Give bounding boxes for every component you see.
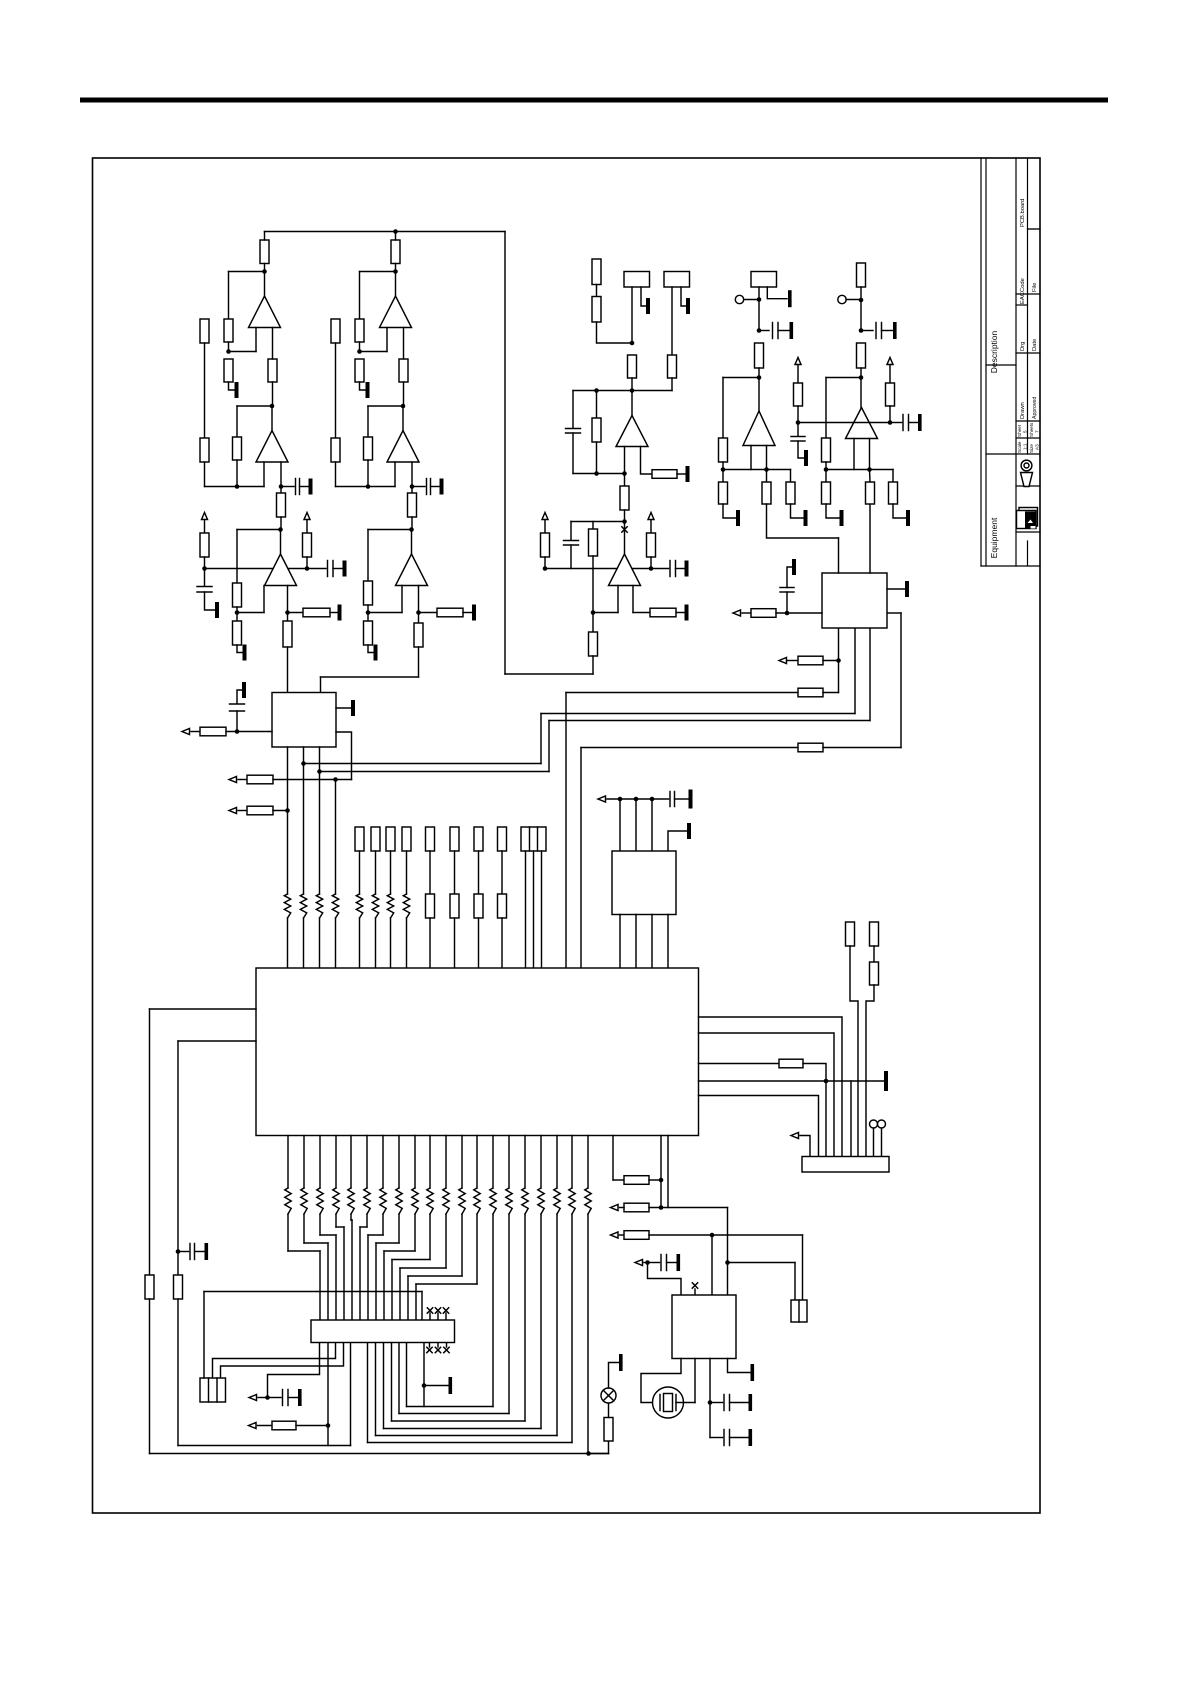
wire ch1 <box>280 487 282 494</box>
wire osc pin a <box>612 1136 614 1181</box>
capacitor mid stageB right <box>670 561 676 577</box>
wire ch4 <box>889 406 891 423</box>
ferrite bead col 399 <box>396 1188 402 1214</box>
wire <box>742 612 751 614</box>
wire into U-left <box>226 731 272 733</box>
wire ch1 to ground <box>205 592 215 610</box>
wire ch4 to cap <box>797 423 799 437</box>
resistor rail C <box>798 688 823 697</box>
capacitor ch3 <box>773 323 779 339</box>
wire ch1 stage2 rail <box>205 486 265 488</box>
wire ch2 <box>411 517 413 530</box>
junction ch1 <box>202 566 207 571</box>
resistor mid inter <box>620 486 629 510</box>
ferrite bead col 383 <box>380 1188 386 1214</box>
ferrite bead col 415 <box>412 1188 418 1214</box>
no-connect x top2 <box>435 1308 440 1313</box>
ferrite bead col 288 <box>285 1188 291 1214</box>
wire osc to box <box>727 1208 729 1296</box>
wire ch1 <box>306 520 308 533</box>
wire loop row y1428.5 <box>384 1428 542 1430</box>
input arrow osc2 <box>611 1232 619 1238</box>
wire <box>191 731 200 733</box>
svg-text:PCB.board: PCB.board <box>1020 199 1026 227</box>
wire to ground <box>424 1385 448 1387</box>
wire stair col 462 <box>461 1214 463 1276</box>
svg-text:Sheet: Sheet <box>1017 424 1022 437</box>
no-connect x top1 <box>427 1308 432 1313</box>
wire ch3 box pin2 to ground <box>767 287 787 299</box>
wire <box>258 1397 268 1399</box>
wire stair col 320 <box>319 1214 321 1235</box>
wire osc3 to box <box>648 1263 682 1296</box>
capacitor ch4 <box>876 323 882 339</box>
resistor mid pwr right <box>647 533 656 557</box>
wire bus col 288 <box>287 1136 289 1189</box>
wire ch2 <box>359 272 361 320</box>
wire stair row y1251 <box>288 1250 320 1252</box>
junction <box>634 797 639 802</box>
wire osc box pin 712 <box>711 1235 713 1295</box>
wire ch3 in- <box>766 446 768 470</box>
wire mid fb R col <box>592 522 594 530</box>
wire ch2 <box>411 487 413 494</box>
wire ch4 to ground <box>798 441 804 458</box>
svg-text:Sheets: Sheets <box>1029 422 1034 437</box>
wire bank <box>454 851 456 894</box>
ferrite bead column <box>332 894 338 918</box>
wire bus col 415 <box>414 1136 416 1189</box>
wire bus col 304 <box>303 1136 305 1189</box>
ferrite bead column <box>300 894 306 918</box>
wire 3cell rail <box>204 1291 422 1293</box>
ground osc mid <box>749 1394 753 1411</box>
resistor ch4 top <box>857 263 866 287</box>
wire mid to rail <box>592 656 594 674</box>
wire bus col 588 <box>587 1136 589 1189</box>
wire bus col 430 <box>429 1136 431 1189</box>
wire mid stageA lower rail <box>573 473 625 475</box>
wire rail D down to IC <box>580 748 582 969</box>
svg-text:7: 7 <box>1035 430 1040 433</box>
wire loop col 541 <box>540 1214 542 1429</box>
junction osc3 <box>645 1260 650 1265</box>
wire ch4 <box>869 470 872 483</box>
wire ch3 <box>790 470 792 483</box>
header rule <box>80 98 1108 103</box>
junction pin424 <box>422 1383 427 1388</box>
ground ch4 g1 <box>840 510 844 526</box>
resistor ch4 fb <box>822 438 831 462</box>
wire <box>667 1262 677 1264</box>
resistor ch2 R5 <box>364 437 373 460</box>
wire <box>649 1179 661 1181</box>
wire connector pin 320 <box>319 1251 321 1320</box>
wire stair col 383 <box>382 1214 384 1235</box>
wire ch4 fb col <box>825 378 827 439</box>
wire mid stageB in- <box>632 586 634 613</box>
wire stair row y1235 <box>320 1234 336 1236</box>
wire stair col 367 <box>366 1214 368 1227</box>
wire ch2 <box>418 613 420 624</box>
wire ch2 <box>419 612 438 614</box>
resistor bank head x359.5 <box>355 827 364 851</box>
wire mid <box>624 474 626 487</box>
wire ch2 stage2 rail <box>336 486 396 488</box>
wire crystal right <box>676 1402 695 1404</box>
junction ch3 <box>721 467 726 472</box>
wire ch3 fb <box>723 377 759 379</box>
wire rail D to U-right <box>887 612 901 614</box>
wire stair col 304 <box>303 1214 305 1243</box>
ferrite bead col 304 <box>301 1188 307 1214</box>
input arrow mid-IC <box>598 796 606 802</box>
ferrite bead col 509 <box>506 1188 512 1214</box>
wire loop pin 367.5 <box>367 1343 369 1443</box>
wire bus col 477 <box>476 1136 478 1189</box>
wire ch1 stage2 output <box>271 406 273 431</box>
wire ch2 <box>386 328 388 352</box>
wire <box>620 1207 625 1209</box>
IC mid <box>612 851 676 915</box>
wire ch4 to cap right <box>890 422 902 424</box>
power arrow mid right <box>648 513 654 520</box>
resistor ch1 pwr left <box>200 533 209 557</box>
wire ch1 fb column <box>236 530 238 584</box>
wire ch1 <box>237 612 264 614</box>
wire mid <box>597 322 633 343</box>
junction ch3 <box>757 328 762 333</box>
wire ch1 <box>228 342 230 352</box>
wire pin343 to 3cell <box>221 1343 344 1379</box>
resistor osc a <box>624 1176 649 1185</box>
wire ch1 <box>255 328 257 352</box>
resistor row2 <box>247 775 273 784</box>
resistor mid R4 <box>668 355 677 378</box>
op-amp mid stageA <box>616 416 648 447</box>
no-connect x bottom <box>427 1347 432 1352</box>
wire ch2 stage3 in+ <box>401 586 403 613</box>
resistor mid bottom <box>589 632 598 656</box>
op-amp ch2 stage2 <box>387 431 419 463</box>
wire bank <box>429 851 431 894</box>
ground osc pin727 <box>751 1364 755 1381</box>
ground U-left <box>351 700 355 716</box>
junction ch4 out <box>859 375 864 380</box>
wire ch1 <box>280 517 282 530</box>
ground ch2 <box>440 479 444 495</box>
ferrite bead bank <box>372 894 378 918</box>
ferrite bead col 430 <box>427 1188 433 1214</box>
svg-text:Description: Description <box>989 330 999 373</box>
wire ch2 <box>403 328 405 360</box>
resistor ch1 R4 <box>268 359 277 382</box>
wire ch2 stage3 in- <box>418 586 420 613</box>
wire mid <box>544 557 546 569</box>
wire mid-IC pin 652 <box>651 799 653 851</box>
wire ch3 lower rail <box>723 469 791 471</box>
wire cap to ground <box>787 567 792 588</box>
wire U-left pin x319.5 <box>319 747 321 894</box>
resistor ch1 stage3 fb1 <box>233 583 242 607</box>
wire mid <box>650 557 652 569</box>
wire <box>786 592 788 613</box>
wire lamp to ground <box>609 1363 619 1389</box>
wire gnd pin down <box>850 1081 852 1157</box>
wire osc col 668 <box>668 1136 728 1208</box>
wire <box>608 1403 610 1418</box>
wire ch1 <box>272 328 274 360</box>
wire U-left pin x287.5 <box>287 747 289 894</box>
wire osc box pin 710 <box>709 1359 711 1438</box>
wire ch2 stage1 output <box>395 272 397 297</box>
resistor bank head x406.5 <box>402 827 411 851</box>
wire mid R col <box>596 442 598 474</box>
svg-text:5: 5 <box>1023 430 1028 433</box>
wire ch4 in- <box>869 439 871 470</box>
ferrite bead col 572 <box>569 1188 575 1214</box>
wire bus col 351 <box>350 1136 352 1189</box>
wire left col1 down <box>149 1299 151 1454</box>
capacitor ch1 stage2 <box>296 479 300 495</box>
resistor U-left input <box>200 727 226 736</box>
wire ch1 <box>264 264 266 272</box>
wire ch1 <box>204 520 206 533</box>
wire loop col 493 <box>492 1214 494 1407</box>
wire ch1 to ground <box>237 645 242 653</box>
resistor bank head x478.5 <box>474 827 483 851</box>
wire bank to IC <box>390 918 392 968</box>
wire mid fb R col <box>592 556 594 569</box>
junction mid <box>630 388 635 393</box>
ferrite bead col 320 <box>317 1188 323 1214</box>
resistor bank head x430 <box>426 827 435 851</box>
wire rail D up <box>900 613 902 748</box>
wire to cap <box>648 1262 660 1264</box>
wire bus col 509 <box>508 1136 510 1189</box>
wire ch4 input rail <box>798 422 890 424</box>
wire mid-IC pin 636 <box>635 799 637 851</box>
wire ch1 <box>236 607 238 621</box>
wire ch2 <box>367 605 369 621</box>
wire mid fb cap col <box>570 522 572 541</box>
wire ch2 stage2 output <box>402 406 404 431</box>
wire mid <box>677 473 685 475</box>
resistor ch3 g1 <box>719 482 728 504</box>
wire bank to IC <box>478 918 480 968</box>
wire ch3 fb col <box>722 378 724 439</box>
wire ch2 <box>367 460 369 487</box>
resistor bottom2 <box>272 1421 296 1430</box>
wire stair row y1268 <box>400 1267 446 1269</box>
wire ch1 output rail <box>265 231 506 233</box>
capacitor ch1 stage3 left <box>197 587 212 593</box>
wire ch2 <box>360 271 396 273</box>
component box mid-1 <box>624 272 650 288</box>
wire ch2 <box>418 647 420 677</box>
svg-text:A3: A3 <box>1035 444 1040 450</box>
ground ch2 <box>472 605 476 621</box>
wire to cap <box>710 1437 723 1439</box>
wire ch2 <box>368 612 402 614</box>
wire rail 1445 <box>178 1445 351 1447</box>
wire <box>236 711 238 732</box>
wire main right pin1 <box>699 1017 843 1157</box>
junction rail A tap <box>301 761 306 766</box>
wire stair row y1235 <box>368 1234 383 1236</box>
wire rail D <box>581 747 798 749</box>
ferrite bead col 588 <box>585 1188 591 1214</box>
wire rail C <box>566 692 798 694</box>
wire mid <box>593 612 618 614</box>
ground ch4 right <box>918 414 922 431</box>
wire ch4 to ground <box>826 504 839 518</box>
wire bank <box>406 851 408 894</box>
no-connect x osc <box>692 1283 697 1288</box>
op-amp ch2 stage3 <box>396 554 428 586</box>
connector main J1 <box>311 1320 455 1343</box>
wire osc row1 <box>649 1207 668 1209</box>
resistor lamp <box>604 1418 613 1442</box>
wire rail A upper <box>541 713 855 715</box>
wire chain A <box>850 946 858 1157</box>
ground lamp <box>619 1354 623 1371</box>
wire mid-IC pin 620 <box>619 799 621 851</box>
wire ch1 stage3 rail left <box>205 568 273 570</box>
wire ch2 <box>403 382 405 406</box>
resistor ch2 feedback R-top <box>391 240 400 264</box>
wire loop col 572 <box>571 1214 573 1443</box>
ferrite bead col 351 <box>348 1188 354 1214</box>
wire osc box pin 727 to ground <box>728 1359 751 1373</box>
junction mid <box>622 471 627 476</box>
wire ch2 <box>335 462 337 487</box>
resistor ch1 R-left-top <box>200 319 209 343</box>
junction ch1 stage1 out <box>262 269 267 274</box>
junction ch2 <box>366 610 371 615</box>
wire mid stageA in+ <box>624 447 626 474</box>
junction ch2 stage2 out <box>401 404 406 409</box>
wire box1 gnd stub <box>641 287 646 306</box>
wire ch1 to U-left <box>287 647 289 693</box>
junction osc <box>725 1260 730 1265</box>
ground mid box2 <box>686 298 690 314</box>
resistor chain B2 <box>870 962 879 985</box>
wire connector pin 344 <box>343 1227 345 1320</box>
wire bank <box>359 851 361 894</box>
resistor osc row1 <box>624 1203 649 1212</box>
ground left col2 <box>205 1243 209 1260</box>
wire ch1 <box>228 272 230 320</box>
wire U-right bottom pin <box>838 628 840 693</box>
junction <box>650 797 655 802</box>
resistor ch2 out vert <box>414 623 423 647</box>
no-connect x bottom <box>435 1347 440 1352</box>
wire loop pin 399 <box>398 1343 400 1414</box>
wire ch3 to ground <box>791 504 804 518</box>
power arrow ch4 right <box>887 358 893 365</box>
junction ch3 <box>757 297 762 302</box>
wire rail B jog <box>548 721 550 772</box>
wire ch1 stage2 in+ <box>263 462 265 487</box>
wire to cap <box>178 1251 189 1253</box>
ferrite bead column <box>316 894 322 918</box>
junction ch2 <box>416 610 421 615</box>
wire ch1 to cap <box>204 569 206 587</box>
ground ch3 cap <box>790 322 794 339</box>
wire to cap <box>268 1397 282 1399</box>
wire stair row y1259.5 <box>392 1259 430 1261</box>
wire loop pin 391.5 <box>391 1343 393 1422</box>
wire box2 gnd stub <box>681 287 686 306</box>
wire ch1 stage3 output <box>280 530 282 555</box>
ground U-left top-left <box>242 682 246 698</box>
drawing frame <box>93 158 1041 1513</box>
wire chain B <box>866 985 874 1157</box>
wire stair row y1220 <box>351 1219 352 1221</box>
wire main left pin1 <box>150 1008 257 1010</box>
wire 2cell pin2 <box>802 1235 804 1300</box>
wire U-left flag stub <box>237 690 242 704</box>
svg-text:Drawn: Drawn <box>1020 402 1026 419</box>
wire connector pin 392 <box>391 1260 393 1321</box>
resistor ch4 R1 <box>857 343 866 368</box>
junction mid <box>630 341 635 346</box>
input arrow rail C <box>779 658 787 664</box>
resistor chain A <box>846 922 855 946</box>
wire to main IC <box>303 918 305 968</box>
wire stub <box>429 1313 431 1320</box>
wire mid stageB rail left <box>545 568 617 570</box>
ground ch3 upper <box>788 290 792 307</box>
resistor ch1 out vert <box>283 621 292 647</box>
wire main left pin2 <box>178 1040 256 1042</box>
junction U-left input <box>235 729 240 734</box>
wire rail B <box>320 771 550 773</box>
wire ch1 <box>287 613 289 622</box>
wire stair row y1227 <box>336 1226 344 1228</box>
wire bank to IC <box>501 918 503 968</box>
wire bus col 399 <box>398 1136 400 1189</box>
wire ch4 <box>882 330 893 332</box>
wire stair row y1243 <box>376 1242 399 1244</box>
resistor bank head x454.5 <box>450 827 459 851</box>
wire ch4 <box>825 470 827 483</box>
resistor ch4 g2 <box>889 482 898 504</box>
wire main right pin3 <box>699 1063 780 1065</box>
ferrite bead col 336 <box>333 1188 339 1214</box>
ground osc3 <box>677 1254 681 1271</box>
wire osc row2 <box>649 1234 803 1236</box>
wire stub <box>437 1343 439 1348</box>
wire ch4 <box>892 470 894 483</box>
wire stair col 446 <box>445 1214 447 1268</box>
wire ch2 stage2 in+ <box>394 462 396 487</box>
wire mid <box>631 378 633 391</box>
resistor ch1 R3 <box>224 359 233 382</box>
wire <box>620 1234 625 1236</box>
wire mid <box>592 613 594 633</box>
wire stair row y1227 <box>360 1226 367 1228</box>
no-connect x mid <box>622 527 627 532</box>
wire mid cap col <box>572 433 574 474</box>
resistor ch1 R7 <box>277 493 286 517</box>
wire U-left pin x303.5 <box>303 747 305 894</box>
wire mid fb cap col <box>570 545 572 569</box>
junction pin710 <box>708 1400 713 1405</box>
wire mid-IC to main IC 668 <box>667 915 669 969</box>
resistor rail D <box>798 743 823 752</box>
